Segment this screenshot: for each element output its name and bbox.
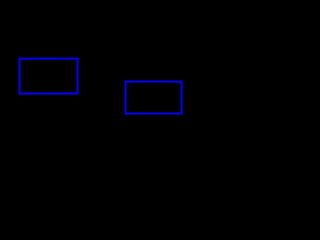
box B1 xyxy=(20,59,78,94)
box B2 xyxy=(126,82,182,114)
